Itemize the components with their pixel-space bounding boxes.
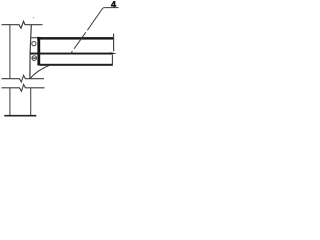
- break line 2: [2, 84, 45, 91]
- wall left face (lower): [9, 88, 11, 115]
- wall left face (upper): [9, 25, 11, 78]
- wall right face (lower): [30, 88, 32, 115]
- break line 1: [2, 75, 45, 82]
- beam top flange (thick): [37, 37, 113, 40]
- leader line dash segment 1: [70, 51, 72, 54]
- leader line dash segment 2: [74, 32, 86, 49]
- scan speck: [33, 17, 34, 18]
- haunch fillet arc: [30, 65, 50, 79]
- leader line main segment with horizontal run: [87, 8, 118, 31]
- wall bottom termination line: [4, 115, 36, 117]
- beam end plate: [37, 37, 40, 66]
- beam bottom flange (thick): [40, 64, 113, 66]
- background: [0, 0, 120, 120]
- bolt circle 1: [32, 42, 36, 46]
- beam right break line lower vertical: [111, 55, 113, 66]
- detail callout number 4: [111, 1, 116, 7]
- bolt circle 2: [32, 56, 37, 61]
- beam middle flange pointed break tip: [110, 52, 117, 55]
- beam right break line upper vertical: [113, 34, 115, 52]
- bolt circle 2 center bar: [32, 57, 37, 59]
- wall right face (upper): [30, 25, 31, 78]
- beam top flange thin lead-in: [30, 37, 37, 39]
- wall top cut line with break zigzag: [2, 21, 43, 28]
- beam middle flange line (thick): [30, 53, 111, 55]
